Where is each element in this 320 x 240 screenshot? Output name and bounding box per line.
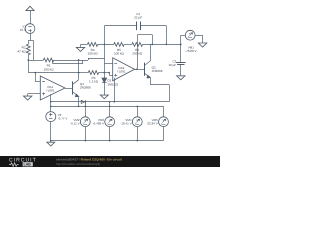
svg-text:-22.84 V: -22.84 V — [146, 122, 157, 126]
label R6 — [132, 48, 143, 56]
wire Q1 emitter down — [78, 96, 80, 106]
svg-text:-10.41 V: -10.41 V — [120, 122, 131, 126]
svg-text:100 kΩ: 100 kΩ — [88, 52, 99, 56]
wire OA1 output to Q1 base — [65, 88, 73, 90]
rail B — [51, 106, 164, 108]
label OA2 — [117, 66, 126, 74]
ground below C2 — [177, 76, 185, 80]
wire row3 inverting net — [28, 72, 80, 74]
wire VM1 column up — [181, 35, 186, 44]
wire row1 jog to node B — [88, 58, 104, 60]
node bottom VM3 — [109, 140, 111, 142]
svg-text:-6.489 V: -6.489 V — [93, 122, 104, 126]
node VM4 rail B — [136, 106, 138, 108]
wire R3 right — [99, 72, 110, 74]
node row1 Q1 collector — [78, 59, 80, 61]
wire row1 left — [34, 60, 44, 62]
wire VM5 down — [163, 127, 165, 141]
ground at row2 left — [76, 44, 84, 51]
ground at OA1 + input — [24, 96, 32, 100]
wire VM4 column upper — [137, 106, 139, 116]
label R2 — [17, 46, 26, 54]
resistor R4 — [87, 43, 97, 47]
svg-text:http://circuitlab.com/c/zxw4uk: http://circuitlab.com/c/zxw4ukmp2j — [56, 162, 100, 166]
node VM3 rail A — [109, 101, 111, 103]
label R5 — [114, 48, 125, 56]
wire V1 to R2 top node — [30, 34, 32, 41]
wire VM2 down — [85, 127, 87, 141]
node C1 right branch — [165, 44, 167, 46]
label R4 — [88, 48, 99, 56]
wire row3 to R3 — [79, 72, 89, 74]
CircuitLab logo: zigzag — [9, 163, 19, 166]
resistor R6 — [132, 43, 143, 47]
svg-text:2N3906: 2N3906 — [152, 69, 163, 73]
label VM3 — [93, 118, 105, 126]
wire row1 lower bypass loop — [52, 60, 83, 64]
wire to OA2 inverting input — [104, 63, 112, 65]
node bottom VM4 — [136, 140, 138, 142]
wire VM3 column upper — [109, 102, 111, 117]
wire row2 a — [81, 44, 88, 46]
node B row2 — [104, 44, 106, 46]
node R2 bottom — [27, 59, 29, 61]
wire V2 down — [50, 122, 52, 141]
svg-text:10 µF: 10 µF — [168, 63, 176, 67]
ground below D1 — [100, 95, 108, 99]
voltmeter VM4 — [132, 117, 142, 127]
voltmeter VM1 — [185, 30, 195, 40]
svg-text:15 V: 15 V — [20, 28, 27, 32]
resistor R1 — [43, 58, 53, 62]
svg-text:1.2 kΩ: 1.2 kΩ — [89, 80, 99, 84]
node bottom VM2 — [84, 140, 86, 142]
wire VM3 down — [109, 127, 111, 141]
voltage source V2 — [46, 112, 56, 122]
wire node B vertical — [104, 26, 106, 73]
wire OA2 feedback hop — [137, 35, 152, 70]
label R3 — [89, 76, 99, 84]
label VM2 — [70, 118, 80, 126]
voltage source V1 — [25, 24, 35, 34]
voltmeter VM2 — [80, 117, 90, 127]
wire row1 right — [54, 60, 88, 62]
rail A — [51, 101, 170, 103]
wire R2 bypass right leg — [33, 40, 35, 60]
wire row2 c — [124, 44, 132, 46]
label C2 — [168, 59, 176, 67]
node C2/VM1 column — [180, 44, 182, 46]
svg-text:-0.11 V: -0.11 V — [70, 122, 79, 126]
transistor Q2 — [145, 61, 151, 78]
node VM3 rail B — [109, 106, 111, 108]
label D1 — [107, 79, 118, 87]
wire VM5 column upper — [163, 106, 165, 116]
label VM1 — [185, 45, 196, 53]
label R1 — [44, 64, 55, 72]
node hop right — [151, 44, 153, 46]
voltmeter VM5 — [159, 117, 169, 127]
label C1 — [134, 12, 142, 20]
wire VM1 to ground — [195, 35, 203, 43]
node bottom V2 — [50, 140, 52, 142]
footer bar — [0, 154, 220, 165]
svg-text:TL081: TL081 — [117, 70, 126, 74]
CircuitLab logo: LAB box — [23, 162, 33, 166]
label Q2 — [152, 66, 163, 74]
label V1 — [20, 24, 27, 32]
label V2 — [58, 113, 68, 121]
label VM4 — [120, 118, 132, 126]
wire Q2 emitter down — [150, 78, 169, 102]
node rail B V2 column — [50, 106, 52, 108]
svg-text:2N3906: 2N3906 — [80, 86, 91, 90]
node rail B emitter Q1 — [78, 106, 80, 108]
node OA2 + link — [108, 72, 110, 74]
wire OA2 output to Q2 base — [135, 69, 145, 71]
svg-text:TL081: TL081 — [46, 88, 55, 92]
voltmeter VM3 — [105, 117, 115, 127]
wire R2 bottom down — [28, 60, 30, 73]
node OA2 output — [136, 68, 138, 70]
node row3 tap — [34, 72, 36, 74]
svg-text:47 kΩ: 47 kΩ — [17, 50, 26, 54]
svg-text:100 kΩ: 100 kΩ — [44, 67, 55, 71]
wire Q1 collector up — [78, 60, 80, 80]
wire under OA2 to rail A — [113, 78, 115, 103]
diode D2 on rail A — [81, 100, 85, 104]
wire to OA2 non-inverting input — [109, 73, 113, 76]
wire C1 left branch — [104, 25, 136, 27]
node Q1 collector row3 — [78, 72, 80, 74]
node rail A V2 column — [50, 101, 52, 103]
capacitor C2 — [176, 44, 185, 75]
wire Q2 collector up — [150, 44, 152, 61]
wire VM2 column upper — [85, 102, 87, 117]
wire R2 top tee — [28, 40, 33, 42]
node D1 top — [103, 72, 105, 74]
label Q1 — [80, 82, 91, 90]
ground at VM1 — [198, 43, 206, 47]
transistor Q1 — [73, 80, 79, 97]
label VM5 — [146, 118, 158, 126]
bottom rail — [51, 140, 164, 142]
wire tap down to OA1 inverting input — [35, 73, 40, 82]
resistor R5 — [114, 43, 124, 47]
svg-text:-0.77 V: -0.77 V — [58, 117, 68, 121]
wire OA1 + input to ground — [28, 94, 41, 97]
wire row2 d — [143, 44, 181, 46]
capacitor C1 — [137, 22, 167, 31]
resistor R2 — [26, 40, 30, 60]
op-amp OA1 — [40, 76, 65, 100]
ground at bottom rail — [47, 141, 55, 146]
wire row2 b — [98, 44, 114, 46]
wire R2 bottom tee — [28, 60, 33, 62]
label OA1 — [46, 85, 55, 93]
op-amp OA2 — [113, 58, 135, 81]
wire VM4 down — [137, 127, 139, 141]
resistor R3 — [88, 71, 98, 75]
wire V2 column to OA1 — [50, 94, 52, 111]
diode D1 (zener) — [102, 73, 107, 96]
svg-text:-78.88 V: -78.88 V — [185, 49, 196, 53]
node VM2 rail B — [84, 106, 86, 108]
power flag at top of V1 — [26, 6, 34, 23]
svg-text:100 kΩ: 100 kΩ — [114, 52, 125, 56]
svg-text:1N5232: 1N5232 — [107, 82, 118, 86]
wire C1 down to row2 — [166, 26, 168, 45]
svg-text:LAB: LAB — [24, 163, 32, 167]
svg-text:22 µF: 22 µF — [134, 16, 142, 20]
